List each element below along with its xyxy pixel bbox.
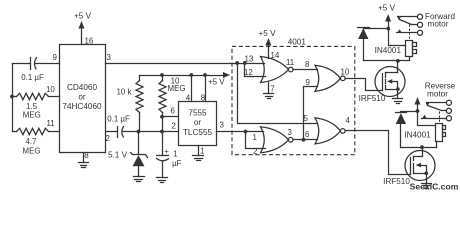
power rail +5V with arrow: [140, 72, 231, 86]
op gate C NOR pins 1,2 -> 3: [261, 127, 294, 153]
wire coil K1 bottom lead: [409, 57, 411, 61]
wire gate B out to Q1 gate: [346, 79, 383, 91]
svg-text:1: 1: [253, 133, 257, 142]
svg-text:2: 2: [253, 147, 257, 156]
wire 555 output: [217, 131, 264, 133]
svg-text:74HC4060: 74HC4060: [62, 102, 102, 111]
svg-text:IRF510: IRF510: [383, 177, 410, 186]
svg-text:6: 6: [171, 107, 176, 116]
wire gate A out to gate B pin 8: [294, 69, 318, 71]
svg-text:12: 12: [244, 68, 253, 77]
wire +5V to coil K2: [418, 112, 436, 126]
capacitor C3 1uF polarized: [157, 132, 182, 178]
svg-text:13: 13: [245, 55, 254, 64]
svg-text:motor: motor: [428, 19, 449, 28]
node junction drain2: [420, 145, 424, 149]
svg-text:IN4001: IN4001: [404, 131, 431, 140]
resistor R1 1.5 MEG: [13, 93, 60, 119]
svg-text:TLC555: TLC555: [183, 128, 213, 137]
power +5V supply arrow relay K2: [415, 97, 421, 112]
IC U3 4001 dashed boundary: [232, 46, 355, 154]
transistor Q1 IRF510: [359, 61, 405, 104]
svg-text:IN4001: IN4001: [375, 46, 402, 55]
wire pin 9 row: [13, 63, 30, 65]
svg-text:4001: 4001: [288, 38, 307, 47]
svg-text:or: or: [194, 118, 202, 127]
svg-text:+5 V: +5 V: [208, 77, 225, 86]
wire stub pin6 node to trigger row: [162, 117, 164, 132]
zener diode D1 5.1V: [108, 132, 148, 177]
svg-text:10: 10: [341, 68, 350, 77]
wire +5V node to diode2 cathode: [401, 111, 418, 113]
node junction +5V / diode2 / coil2: [416, 109, 420, 113]
svg-text:µF: µF: [172, 159, 182, 168]
node junction gate C out / pin 9 branch: [302, 138, 306, 142]
ground under C3: [157, 178, 168, 183]
ground under gate A pin 7: [264, 83, 274, 99]
svg-text:5: 5: [304, 114, 309, 123]
op gate B NOR pins 8,9 -> 10: [315, 65, 345, 91]
svg-text:MEG: MEG: [168, 84, 186, 93]
wire CD4060 pin3 to NOR inputs: [106, 63, 265, 65]
svg-text:8: 8: [305, 60, 310, 69]
svg-text:0.1 µF: 0.1 µF: [21, 73, 44, 82]
diode D2 IN4001 flyback: [358, 28, 402, 61]
resistor R4 10 MEG: [159, 76, 185, 117]
node junction drain/diode/coil: [396, 59, 400, 63]
svg-text:5.1 V: 5.1 V: [108, 151, 128, 160]
power +5V supply arrow for CD4060 pin 16: [74, 12, 92, 45]
wire pin 8 lead: [205, 76, 207, 102]
node junction trigger/zener/10k: [137, 130, 141, 134]
svg-text:4: 4: [346, 116, 351, 125]
svg-text:2: 2: [172, 122, 176, 131]
ground under CD4060: [79, 153, 89, 168]
svg-text:7: 7: [270, 85, 274, 94]
relay K2 contacts: [422, 100, 452, 121]
relay K1 coil: [406, 41, 417, 57]
svg-text:1: 1: [173, 150, 177, 159]
capacitor C2 0.1uF: [107, 115, 130, 138]
node junction pin3 feed: [235, 61, 239, 65]
IC U2 7555/TLC555: [179, 102, 217, 146]
wire +5V node to diode cathode: [364, 28, 389, 30]
svg-text:3: 3: [220, 121, 225, 130]
svg-text:2: 2: [106, 134, 110, 143]
svg-text:3: 3: [107, 53, 112, 62]
svg-text:4.7: 4.7: [26, 137, 37, 146]
svg-text:3: 3: [288, 128, 293, 137]
power +5V supply arrow for 4001 pin 14: [258, 29, 276, 59]
svg-text:0.1 µF: 0.1 µF: [107, 115, 130, 124]
transistor Q2 IRF510: [383, 148, 435, 187]
op gate D NOR pins 5,6 -> 4: [315, 118, 345, 144]
relay K2 coil: [436, 124, 446, 142]
ground under Q2 source: [422, 184, 432, 189]
svg-text:11: 11: [286, 58, 294, 67]
diode D3 IN4001 flyback: [396, 113, 432, 148]
ground under zener: [134, 177, 145, 182]
node junction +5V / diode / coil: [386, 27, 390, 31]
svg-text:6: 6: [305, 130, 310, 139]
svg-text:8: 8: [84, 151, 89, 160]
node junction R4 / pin6: [160, 115, 164, 119]
node junction rail/pin8: [203, 73, 207, 77]
node junction trigger/1uF/10MEG: [160, 130, 164, 134]
ground under 7555 pin 1: [193, 146, 204, 161]
node junction pin13/12 tie: [243, 61, 247, 65]
relay K1 contacts: [397, 14, 423, 35]
svg-text:motor: motor: [427, 90, 448, 99]
svg-text:7555: 7555: [188, 109, 207, 118]
svg-text:SeekIC.com: SeekIC.com: [410, 182, 459, 192]
svg-text:+5 V: +5 V: [378, 4, 396, 13]
svg-text:10 k: 10 k: [117, 88, 132, 97]
wire gate B pin 9 from gate C out: [304, 87, 318, 140]
wire diode anode to drain node: [364, 60, 410, 62]
wire feed to gate D pin 5: [238, 64, 318, 124]
IC U1 CD4060/74HC4060: [60, 45, 106, 153]
svg-text:9: 9: [306, 78, 311, 87]
power +5V supply arrow relay K1: [378, 4, 396, 29]
svg-text:10: 10: [46, 85, 55, 94]
wire gate C out to gate D pin 6: [294, 139, 318, 141]
wire 555 out stub to gate C pin 2: [246, 132, 266, 149]
svg-text:11: 11: [47, 119, 55, 128]
svg-text:+5 V: +5 V: [74, 12, 92, 21]
relay K2 mechanical link dashed: [439, 112, 441, 124]
svg-text:+5 V: +5 V: [258, 29, 276, 38]
wire diode2 anode to drain node: [401, 147, 437, 149]
node junction rail/pin4: [189, 73, 193, 77]
relay K1 mechanical link dashed: [409, 25, 411, 41]
wire stub to pin 12: [245, 64, 266, 77]
svg-text:1: 1: [200, 147, 204, 156]
svg-text:MEG: MEG: [23, 111, 41, 120]
wire left rail: [12, 64, 14, 132]
wire trigger row: [106, 131, 118, 133]
svg-text:or: or: [78, 93, 86, 102]
wire pin 6: [163, 116, 179, 118]
node junction gate C input tie: [244, 130, 248, 134]
capacitor C1 0.1uF: [21, 58, 44, 83]
svg-text:IRF510: IRF510: [359, 94, 386, 103]
resistor R3 10k: [117, 76, 143, 132]
wire coil K2 bottom lead: [436, 142, 438, 148]
resistor R2 4.7 MEG: [13, 128, 60, 155]
node junction rail/R4: [160, 73, 164, 77]
wire +5V to coil K1: [389, 29, 406, 46]
ground under Q1 source: [393, 99, 403, 104]
svg-text:+: +: [164, 147, 169, 156]
node junction left rail / R1: [10, 95, 14, 99]
svg-text:CD4060: CD4060: [67, 83, 97, 92]
svg-text:9: 9: [53, 53, 58, 62]
op gate A NOR pins 13,12 -> 11: [261, 57, 294, 83]
svg-text:MEG: MEG: [23, 146, 41, 155]
wire gate D out to Q2 gate: [346, 131, 411, 175]
wire pin 4 lead: [191, 76, 193, 102]
